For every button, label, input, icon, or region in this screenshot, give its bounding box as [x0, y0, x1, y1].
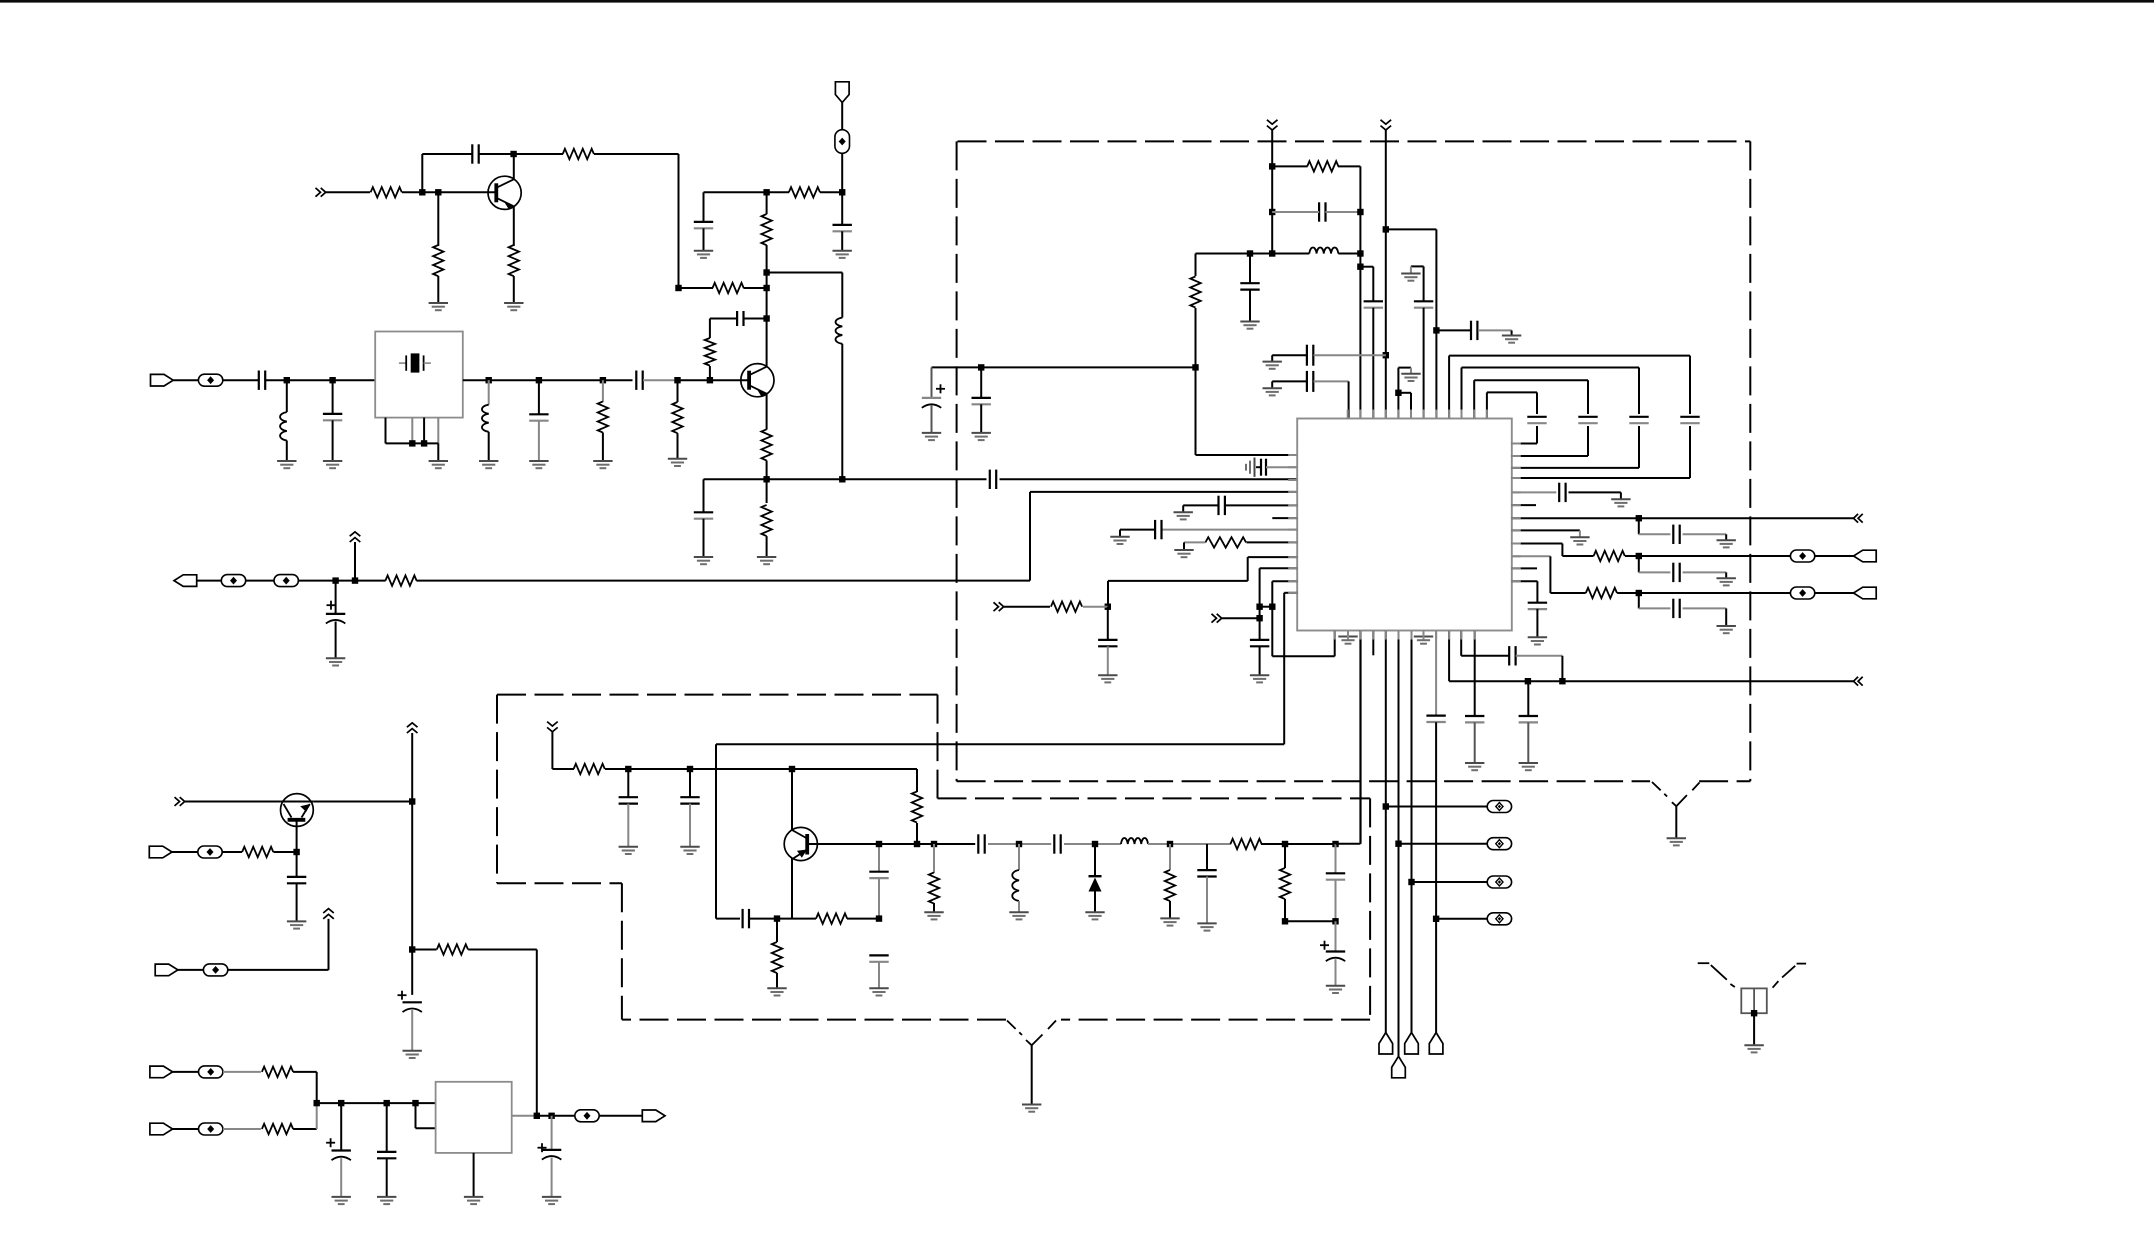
ground — [332, 1196, 351, 1198]
capacitor C38 series — [1053, 834, 1055, 853]
capacitor C32 — [627, 769, 629, 797]
row wire — [463, 379, 633, 381]
ground — [1502, 335, 1521, 337]
electrolytic capacitor CE4 — [398, 994, 407, 996]
power chevron up 2 — [323, 914, 334, 918]
ground — [924, 911, 943, 913]
shield box (receiver) top edge — [958, 140, 1751, 142]
base row wire — [716, 918, 740, 920]
wire — [643, 379, 678, 381]
bus wire — [317, 1102, 436, 1104]
connector J10 — [642, 1110, 665, 1122]
U1 pin 518 output row — [1512, 517, 1854, 519]
transistor Q4 — [791, 769, 793, 830]
wire — [841, 153, 843, 192]
resistor R5 — [509, 245, 519, 276]
capacitor C22 — [1250, 639, 1269, 641]
wire — [422, 153, 472, 155]
wire — [536, 950, 538, 1116]
U1 pin 581 cap C31 — [1512, 580, 1538, 582]
row wire — [1064, 843, 1121, 845]
wire — [1386, 228, 1437, 230]
capacitor C28 — [1638, 518, 1640, 534]
transistor Q1 — [488, 176, 521, 209]
inductor L3 — [488, 380, 490, 405]
capacitor C41 — [296, 852, 298, 877]
wire — [479, 153, 514, 155]
resistor R4 — [437, 192, 439, 246]
X1 pins to ground — [385, 418, 387, 444]
U1 pin 568 wire — [1260, 567, 1298, 569]
node — [763, 269, 769, 275]
U1 pin stubs — [1347, 410, 1349, 419]
resistor R26 series — [1230, 839, 1261, 849]
capacitor C12 — [1318, 202, 1320, 221]
U1 pin 581 wire — [1272, 580, 1297, 582]
resistor R9 — [761, 429, 771, 460]
bottom terminal A2 — [1392, 1056, 1406, 1078]
wire — [1815, 555, 1854, 557]
wire to U1 top pin — [1348, 381, 1350, 418]
feedback cap C34 — [878, 844, 880, 872]
wire — [551, 732, 553, 769]
row wire — [605, 768, 917, 770]
wire — [326, 191, 370, 193]
capacitor C33 — [689, 769, 691, 797]
U1 pin 530 cap C20 — [1162, 529, 1297, 531]
U1 pin gnd 1423 — [1423, 631, 1425, 637]
row wire — [1148, 843, 1231, 845]
resistor R3 — [713, 283, 744, 293]
bubble TP12 — [203, 964, 227, 976]
cap C15 to ground (row 355) — [1271, 355, 1273, 361]
ground — [922, 432, 941, 434]
ground — [529, 460, 548, 462]
shield box left edge — [956, 141, 958, 781]
loop 1 (pin 1449 - cap - return 480) — [1448, 356, 1450, 419]
wire — [841, 103, 843, 130]
ground — [1174, 549, 1193, 551]
resistor R18 — [1594, 551, 1625, 561]
resistor R1 — [371, 187, 402, 197]
U2 output wire — [512, 1115, 537, 1117]
resistor R2 — [563, 149, 594, 159]
capacitor C4 — [736, 311, 738, 326]
wire — [173, 1071, 199, 1073]
inductor L6 series — [1121, 838, 1148, 844]
capacitor C26 — [1527, 681, 1529, 716]
bubble TP14 — [199, 1123, 223, 1135]
ground — [429, 460, 448, 462]
bubble TP3 — [221, 575, 245, 587]
bubble TP11 — [198, 846, 222, 858]
U1 pin 530 ground stub — [1512, 529, 1580, 531]
cap C16 to ground (row 381) — [1271, 381, 1273, 387]
capacitor C30 — [1638, 593, 1640, 608]
capacitor C5 — [703, 479, 705, 512]
U1 pin 505 cap C19 — [1226, 504, 1297, 506]
jog wire — [415, 1103, 417, 1128]
power terminal P1 — [835, 82, 849, 103]
ground — [757, 556, 776, 558]
ground — [323, 460, 342, 462]
wire — [1815, 592, 1854, 594]
VCO box right edge — [1369, 798, 1371, 1019]
capacitor C13 — [1249, 254, 1251, 284]
bottom terminal A4 — [1429, 1033, 1443, 1055]
electrolytic capacitor CE6 — [551, 1116, 553, 1150]
power chevron up 3 — [407, 729, 418, 733]
U1 pin 593 wire — [1284, 592, 1297, 594]
supply chevron V2 — [1381, 120, 1392, 124]
capacitor C9 — [332, 380, 334, 414]
wire — [402, 191, 496, 193]
wire — [1222, 617, 1260, 619]
ground — [1611, 498, 1630, 500]
resistor R11 — [602, 380, 604, 402]
wire — [766, 273, 768, 319]
inductor L4 — [1309, 248, 1338, 254]
ground — [869, 987, 888, 989]
ground — [668, 458, 687, 460]
long wire to mixer — [416, 580, 1030, 582]
squelch input chevron — [994, 602, 999, 611]
wire to U1 pin — [1000, 478, 1298, 480]
capacitor C10 — [538, 380, 540, 414]
U1 pin 568 stub — [1512, 567, 1537, 569]
resistor R15 — [1195, 254, 1197, 277]
ground — [504, 302, 523, 304]
test bubble TP7 — [1412, 881, 1488, 883]
U1 bus wire 1411 — [1411, 631, 1413, 1033]
bubble TP15 — [575, 1110, 599, 1122]
ground — [1401, 273, 1420, 275]
electrolytic capacitor CE5 — [340, 1103, 342, 1150]
antenna pad box — [1741, 988, 1767, 1013]
mic input chevron — [175, 797, 180, 806]
rail wire — [1385, 130, 1387, 419]
capacitor C36 — [869, 954, 888, 956]
resistor R7 — [766, 192, 768, 214]
ground — [1717, 577, 1736, 579]
wire — [421, 154, 423, 192]
capacitor C1 — [471, 144, 473, 163]
U1 pin 1461 series cap C24 — [1460, 631, 1462, 656]
capacitor C39 — [1206, 844, 1208, 870]
wire — [599, 1115, 642, 1117]
top border bar — [0, 0, 2154, 3]
capacitor C35 — [741, 909, 743, 928]
capacitor C29 — [1638, 556, 1640, 572]
loop 3 — [1473, 380, 1475, 418]
resistor R27 — [1284, 844, 1286, 868]
U1 bus wire 1386 — [1385, 631, 1387, 1033]
wire to U1 pin1 — [1196, 454, 1298, 456]
capacitor C37 series — [977, 834, 979, 853]
VCO box top-right edge — [938, 797, 1371, 799]
resistor R14 — [1307, 161, 1338, 171]
capacitor C2 — [841, 192, 843, 225]
ground — [972, 432, 991, 434]
VCO box top edge — [497, 694, 938, 696]
bubble TP2 — [198, 374, 222, 386]
chevron out — [1854, 514, 1859, 523]
U1 pin stub 1373 — [1372, 631, 1374, 656]
wire — [767, 272, 843, 274]
VCO ground funnel — [1007, 1021, 1022, 1036]
connector J3 — [174, 575, 197, 587]
loop 4 — [1486, 392, 1488, 418]
resistor R22 — [776, 919, 778, 942]
capacitor C17 — [1436, 329, 1470, 331]
wire — [298, 580, 385, 582]
shield box bottom edge — [957, 780, 1651, 782]
wire — [704, 191, 767, 193]
ground — [1098, 674, 1117, 676]
ground — [1160, 917, 1179, 919]
wire — [1285, 920, 1336, 922]
ground — [833, 250, 852, 252]
wire — [354, 542, 356, 581]
resistor R13 — [385, 575, 416, 585]
jog wire — [1360, 266, 1373, 268]
U1 pin wire 467 cap to side ground — [1254, 458, 1256, 477]
connector J4 — [1854, 550, 1877, 562]
shield box right edge — [1749, 141, 1751, 781]
U1 pin wire 1361 — [1360, 631, 1362, 844]
resistor R30 — [262, 1067, 293, 1077]
row wire — [988, 843, 1051, 845]
regulator U2 — [436, 1082, 512, 1153]
ground — [429, 302, 448, 304]
wire — [313, 801, 412, 803]
U2 ground pin — [473, 1153, 475, 1197]
antenna pad dashes — [1698, 962, 1710, 964]
capacitor C42 — [386, 1103, 388, 1151]
ground loop pins 1398/1411 — [1397, 368, 1399, 419]
capacitor C18 pin 1423 — [1423, 266, 1425, 301]
resistor R23 — [777, 918, 816, 920]
bubble TP13 — [199, 1066, 223, 1078]
resistor R31 — [262, 1124, 293, 1134]
transistor Q3 — [185, 801, 281, 803]
connector J6 — [149, 846, 172, 858]
ground — [1326, 985, 1345, 987]
supply chevron V1 — [1267, 120, 1278, 124]
rail wire — [1435, 229, 1437, 418]
wire — [223, 1128, 261, 1130]
Q3 base wire — [296, 820, 298, 852]
resistor R29 — [437, 944, 468, 954]
wire — [266, 379, 376, 381]
electrolytic capacitor CE1 — [335, 581, 337, 614]
connector J5 — [1854, 587, 1877, 599]
rail wire y=368 — [932, 366, 1196, 368]
U1 pin 556 output row 2 — [1512, 555, 1551, 557]
test bubble TP5 — [1386, 806, 1488, 808]
capacitor C21 — [1107, 607, 1109, 640]
wire — [678, 154, 680, 288]
ground — [377, 1196, 396, 1198]
ground — [326, 657, 345, 659]
long row to discriminator — [716, 743, 1284, 745]
resistor R17 — [1004, 606, 1050, 608]
resistor R20 — [574, 764, 605, 774]
wire — [173, 379, 198, 381]
IC U1 — [1297, 419, 1512, 631]
resistor R12 — [677, 380, 679, 402]
U1 pin 492 cap C27 — [1512, 491, 1557, 493]
wire — [328, 919, 330, 970]
resistor R24 — [933, 844, 935, 873]
ground — [1085, 911, 1104, 913]
ground — [767, 987, 786, 989]
U1 bus wire 1436 + capacitor C23 — [1435, 631, 1437, 716]
electrolytic capacitor CE3 — [1320, 944, 1329, 946]
ground — [694, 556, 713, 558]
bubble TP4 — [274, 575, 298, 587]
ground — [1667, 837, 1686, 839]
U1 pin 543 output row 1 — [1512, 543, 1563, 545]
ground — [1250, 674, 1269, 676]
resistor R21 (above row) — [916, 769, 918, 792]
wire — [679, 287, 714, 289]
VCO box left edge — [496, 695, 498, 884]
connector J7 — [155, 964, 178, 976]
row wire — [1261, 843, 1336, 845]
ground — [1519, 762, 1538, 764]
ground — [403, 1050, 422, 1052]
VCO box bottom edge — [1061, 1019, 1370, 1021]
wire — [197, 580, 222, 582]
ground — [1744, 1044, 1763, 1046]
resistor R6 — [789, 187, 820, 197]
supply rail x=412 — [411, 733, 413, 995]
inductor L2 — [286, 380, 288, 412]
ground — [593, 460, 612, 462]
bubble TP9 — [1790, 550, 1814, 562]
loop 2 — [1461, 368, 1463, 419]
wire — [1753, 1013, 1755, 1045]
chevron out — [1854, 677, 1859, 686]
resistor R10 — [766, 479, 768, 503]
ground — [1717, 625, 1736, 627]
ground — [1197, 922, 1216, 924]
U1 pin gnd 1348 — [1347, 631, 1349, 637]
ground — [1009, 911, 1028, 913]
capacitor C11 — [980, 367, 982, 398]
node — [675, 285, 681, 291]
U1 pin 557 wire — [1248, 556, 1298, 558]
ground — [1465, 762, 1484, 764]
wire — [172, 851, 198, 853]
capacitor C40 — [1335, 844, 1337, 873]
electrolytic capacitor CE2 — [931, 367, 933, 398]
wire Q2 base — [710, 379, 749, 381]
VCO box notch edge — [497, 882, 622, 884]
transistor Q2 — [741, 364, 774, 397]
wire — [767, 191, 789, 193]
connector J8 — [150, 1066, 173, 1078]
test bubble TP8 — [1436, 918, 1487, 920]
wire — [1029, 492, 1031, 581]
power chevron up — [350, 538, 361, 542]
resistor R19 — [1586, 588, 1617, 598]
U1 pin 505 stub — [1512, 504, 1536, 506]
U1 pin 518 stub — [1272, 517, 1297, 519]
resistor R25 — [1169, 844, 1171, 870]
capacitor C14 — [1372, 267, 1374, 302]
wire — [293, 1128, 317, 1130]
capacitor C7 — [989, 470, 991, 489]
under-route wire — [1272, 655, 1334, 657]
shield ground funnel — [1652, 782, 1667, 797]
VCO box step edge — [937, 695, 939, 799]
ground — [694, 250, 713, 252]
capacitor C25 — [1474, 631, 1476, 717]
ground — [287, 920, 306, 922]
rail wire — [1359, 166, 1361, 418]
wire — [178, 969, 204, 971]
bottom terminal A1 — [1379, 1033, 1393, 1055]
wire — [1196, 253, 1273, 255]
resistor R8 — [709, 319, 711, 339]
capacitor C3 — [703, 192, 705, 222]
capacitor C8 — [258, 371, 260, 390]
ground — [680, 846, 699, 848]
U1 pin 1449 row 681 — [1448, 631, 1450, 682]
capacitor C6 — [635, 371, 637, 390]
chevron input 2 — [1212, 614, 1217, 623]
wire — [293, 1071, 317, 1073]
main row y=844 — [879, 843, 975, 845]
row to U1 wire — [1336, 843, 1361, 845]
bottom terminal A3 — [1405, 1033, 1419, 1055]
ground — [1022, 1104, 1041, 1106]
ground — [542, 1196, 561, 1198]
wire — [222, 851, 242, 853]
ground — [619, 846, 638, 848]
wire — [273, 851, 296, 853]
wire — [246, 580, 274, 582]
supply chevron V3 — [547, 722, 558, 726]
ground — [479, 460, 498, 462]
ground — [277, 460, 296, 462]
crystal symbol — [399, 362, 406, 364]
ground — [1717, 539, 1736, 541]
row wire — [704, 478, 767, 480]
rail wire — [1271, 130, 1273, 254]
wire — [173, 1128, 199, 1130]
inductor L5 — [1018, 844, 1020, 870]
inductor L1 — [841, 273, 843, 318]
bubble TP10 — [1790, 587, 1814, 599]
ground — [1528, 636, 1547, 638]
ground — [1240, 321, 1259, 323]
wire — [678, 379, 710, 381]
resistor R28 — [242, 847, 273, 857]
varactor diode D1 — [1094, 844, 1096, 876]
U1 pin 542 resistor R16 — [1247, 541, 1298, 543]
wire — [223, 379, 259, 381]
crystal filter X1 — [375, 332, 463, 418]
ground — [1174, 511, 1193, 513]
wire — [223, 1071, 261, 1073]
input chevron J1 — [316, 188, 321, 197]
wire to U1 — [1030, 491, 1297, 493]
ground — [1110, 536, 1129, 538]
test bubble TP6 — [1399, 843, 1488, 845]
